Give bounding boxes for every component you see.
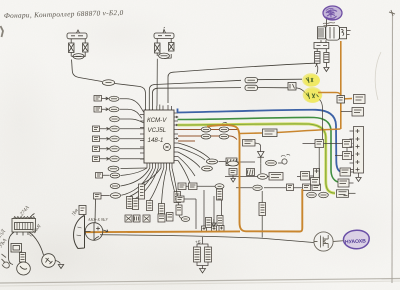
fuse F3 tall [139, 184, 145, 199]
ground arrow right column [356, 173, 361, 182]
bulb H2 filament [85, 223, 100, 241]
wire from yellow-green terminal [349, 192, 356, 194]
box K2 hatched [226, 158, 237, 166]
wire orange2 through box [240, 129, 341, 134]
svg-text:VCJ5L: VCJ5L [148, 127, 167, 134]
box row bottom b1 [125, 215, 132, 222]
svg-text:НУАОХВ: НУАОХВ [345, 238, 367, 245]
node circle N1 [282, 159, 287, 164]
label oval S7 [110, 173, 120, 178]
relay leg fuse left [315, 52, 321, 64]
wire RC2-RC3 [346, 148, 348, 152]
wire W1 long horizontal to relay [168, 63, 316, 103]
wire W2a ECU to junction circle 1 [149, 79, 302, 109]
label oval S8 [111, 193, 121, 198]
wire EDV right down [255, 143, 261, 152]
left cluster rows [93, 80, 148, 172]
oval label YUS [266, 160, 277, 165]
ECU top pin stubs [146, 105, 172, 111]
label oval M1 [206, 159, 217, 164]
oval label PLY [228, 161, 239, 166]
lamp E1 connector label [73, 54, 84, 59]
lamp E2 connector label [159, 53, 170, 58]
plus box P3 [219, 226, 224, 232]
box 241.2 [269, 173, 283, 181]
wire orange relay drop [340, 41, 342, 129]
faint pencil arc right margin [375, 52, 381, 100]
label oval T3 [201, 134, 211, 139]
headlight reflector [74, 216, 85, 249]
wire F2 up [136, 168, 159, 199]
lamp E1 bulb right [83, 43, 89, 52]
wire fusebox left down [9, 232, 15, 265]
plus box P2 [212, 226, 217, 232]
wire tag to reflector [84, 215, 85, 217]
box row bottom b4 [158, 214, 165, 222]
box row bottom b5 [167, 213, 174, 222]
svg-text:КСМ-V: КСМ-V [147, 117, 167, 124]
box EDV [243, 140, 256, 147]
ECU bottom pin stubs [147, 163, 172, 168]
ground arrow under relay [324, 63, 329, 72]
wire RB2 to orange drop [341, 111, 352, 113]
fuse FB1 [259, 203, 266, 216]
ECU left pin stubs [140, 115, 144, 160]
right column components [303, 95, 366, 198]
wire row10 [121, 168, 150, 186]
box RB2 [352, 108, 364, 117]
wire H2 down to bus [94, 237, 99, 241]
relay box CT.1 [314, 43, 329, 49]
wire RV1 up [162, 168, 167, 204]
oval label on y187 [253, 185, 263, 190]
svg-text:АЮг-Б 9ЬУ: АЮг-Б 9ЬУ [87, 217, 109, 222]
wire green from ECU to right column [178, 117, 339, 182]
resistor vertical RV1 [159, 204, 165, 217]
bottom-left corner scribble [2, 254, 10, 268]
lamp E1 bulb left [69, 43, 75, 53]
wire K2 to D1 [237, 161, 255, 163]
relay K1 left section [318, 27, 326, 39]
box RC1 [315, 140, 324, 148]
wire D2 down [260, 163, 262, 173]
box row bottom b3 [143, 215, 150, 222]
wire lamp E1 down to ECU via label [72, 60, 146, 110]
relay K1 right section [340, 28, 347, 39]
label oval row8 [108, 166, 119, 171]
label oval row10 [110, 184, 120, 189]
wire vertical x262 down [261, 191, 263, 203]
resistor RV2 hatched [217, 189, 223, 200]
wire S4 row [100, 137, 145, 140]
label oval S4 [110, 136, 120, 142]
wire row8 to ECU bottom [121, 167, 148, 170]
wire orange junction short [318, 93, 341, 97]
label box on W2a [245, 78, 258, 83]
wire M1 to K2 [219, 161, 226, 163]
wire fusebox top annotation line [30, 214, 35, 219]
sensor S6 box [93, 156, 100, 162]
wire orange bottom from headlight [86, 230, 241, 233]
sensor S8 box [94, 193, 102, 199]
wire F3 up [142, 168, 162, 184]
wire row3 to ECU [120, 119, 144, 123]
label oval T4 [219, 134, 229, 139]
wire fusebox right to horn [29, 232, 44, 255]
wire YUS to node [278, 162, 282, 164]
label oval r2 [181, 217, 189, 222]
label oval T1 [201, 127, 211, 132]
left edge smudge top [1, 26, 4, 37]
ground arrow horn [58, 265, 63, 269]
sensor label oval row0 [102, 80, 114, 86]
wire orange main loop [207, 125, 302, 231]
sensor S4 box [93, 136, 100, 142]
terminal box green wire [338, 179, 349, 187]
wire F4 up [150, 168, 164, 201]
ECU U1 label [147, 117, 167, 144]
wire W2b ECU to junction circle 2 [152, 88, 305, 110]
center-bottom logic chain [100, 169, 321, 274]
wire x214 222 verticals [204, 190, 222, 226]
wire headlight top to cluster [94, 199, 97, 223]
diagonal handwritten annotations [0, 204, 109, 249]
box ML1 [178, 183, 186, 190]
wire shunt top joins [197, 237, 208, 247]
wire orange to box right [341, 98, 352, 101]
label oval row3 [110, 116, 120, 122]
box ML2 [189, 183, 198, 190]
label oval ML3 [215, 184, 224, 189]
label box on W2b [245, 85, 258, 90]
wire lamp E1 internal [71, 39, 85, 57]
box plusB vertical [314, 169, 320, 180]
lamp E2 bulb left [155, 43, 161, 53]
wire shunt bottom joins [197, 262, 208, 269]
wire relay verticals [317, 19, 326, 53]
headlight tag box [79, 206, 86, 215]
ECU U1 [144, 110, 174, 163]
yellow highlighter circle C2 [303, 87, 323, 103]
purple scribble blob [323, 6, 342, 20]
wire S1 row [102, 97, 144, 112]
wire FB1 down to bus [261, 216, 263, 238]
lamp assembly E2 housing [154, 27, 174, 39]
reflector inner ticks [77, 227, 82, 236]
label oval S2 [109, 107, 119, 112]
fuse F2 [133, 199, 139, 210]
wire S5 row [100, 147, 145, 150]
scan mottle patches [0, 217, 125, 290]
connector X2 pin stubs [350, 131, 354, 170]
wire S3 row [100, 127, 145, 130]
box MR1 [229, 169, 237, 176]
right edge top mark [389, 10, 395, 16]
node junction W1-relay [316, 63, 317, 64]
wire yellow-green highlighted [178, 124, 336, 193]
arrow right of bulb [103, 230, 108, 233]
resistor BL2 [20, 253, 26, 263]
rect right r1 [174, 192, 181, 203]
ECU right side brown signal wires [178, 130, 238, 142]
wire S6 row [100, 157, 145, 160]
fuse box teeth [14, 217, 35, 219]
ovals pair bottom right [307, 192, 317, 197]
sensor S7 box [96, 173, 103, 179]
wire lamp E2 internal [157, 39, 171, 59]
wire verticals below ECU right [169, 168, 178, 205]
wire lamp E2 vertical into ECU [156, 59, 159, 106]
wire relay to W1 [315, 63, 317, 66]
wire RC3 to connector [335, 155, 354, 157]
box CHE [311, 178, 320, 186]
wire terminal stubs [344, 172, 354, 196]
sensor S3 box [93, 126, 100, 132]
wire brown2 [178, 136, 237, 140]
relay K1 tail stub [347, 31, 351, 35]
wire row y143 [303, 143, 353, 145]
wire bottom bus black [100, 235, 314, 243]
resistor RZ hatched [247, 169, 255, 176]
sensor S5 box [93, 146, 100, 152]
box y187 a [287, 184, 294, 191]
terminal box yellow-green wire [337, 190, 349, 198]
ground arrow bottom center [200, 269, 206, 274]
wire junction C1 to relay arrow [317, 66, 318, 75]
fuse box FB outer [12, 219, 36, 233]
box B1 on W2b [288, 83, 296, 91]
box y187 c [312, 184, 321, 191]
resistor RM1 hatched [206, 218, 212, 228]
label oval M2 [202, 166, 213, 171]
wire RC1 down [318, 148, 320, 178]
lamp E2 bulb right [169, 43, 175, 52]
scribble under purple blob [323, 23, 335, 26]
label oval S1 [109, 96, 119, 101]
wire CHL to box241 [268, 176, 270, 178]
below-ECU cluster [94, 168, 190, 222]
wire brown1 [178, 129, 238, 131]
box RB1 top right [354, 95, 366, 104]
ground arrow MR1 [231, 175, 236, 182]
connector X2 strip [354, 127, 364, 174]
diode D2 [258, 152, 265, 164]
wire C2 down right column [320, 100, 323, 140]
wire chain y187 [236, 187, 302, 189]
box RC3 [343, 152, 352, 160]
sensor S1 box [94, 96, 102, 102]
bottom paper edge shadow [0, 279, 400, 284]
wire ECU fan right-down [178, 143, 210, 183]
box on orange relay drop [337, 96, 345, 104]
wire fusebox stubs down [17, 232, 28, 236]
lamp assembly E1 housing [67, 30, 87, 39]
wire brown3 [178, 140, 195, 142]
fuse box inner [15, 223, 34, 230]
resistor RM2 hatched [217, 216, 223, 226]
shunt resistor pair right [205, 247, 212, 262]
shunt resistor pair left [194, 247, 201, 262]
wire ML row [186, 185, 215, 187]
wire S8 row [101, 168, 153, 196]
wire S7 row [103, 168, 148, 176]
box row bottom b2 [134, 215, 141, 222]
sensor S2 box [94, 107, 102, 113]
oval label CHL [258, 174, 268, 179]
scribble above T2 [222, 122, 227, 125]
wire F1 up [130, 168, 156, 197]
fuse F1 [127, 197, 133, 209]
wire r2 to label [179, 215, 182, 219]
bottom left battery cluster [9, 199, 109, 275]
terminal box blue wire [340, 168, 351, 176]
label oval S6 [110, 156, 120, 162]
wire blue from ECU to right column [178, 109, 341, 172]
box on orange2 [263, 129, 278, 137]
svg-text:148-1: 148-1 [148, 137, 164, 144]
label oval S5 [110, 146, 120, 152]
box RC2 [343, 140, 352, 148]
motor circle BL3 [17, 262, 31, 275]
label oval T2 [219, 127, 229, 132]
wire horn to ground [55, 261, 60, 264]
ECU right pin stubs with arrows [174, 113, 178, 161]
horn circle H1 [42, 254, 56, 268]
wire ML4 right [184, 199, 196, 229]
bulb circle H2 [85, 223, 103, 241]
rect right r2 [176, 205, 182, 215]
label oval S3 [110, 126, 120, 132]
relay K1 coil body [326, 26, 340, 41]
box BL1 [11, 244, 22, 253]
relay leg fuse right [324, 53, 329, 63]
right paper edge shadow [391, 12, 394, 283]
MOSFET output circle Q1 [314, 232, 334, 251]
node N1 annotation [281, 154, 290, 156]
box ML4 [176, 196, 184, 202]
box eq [301, 172, 310, 181]
purple label oval HYAOXB [334, 230, 370, 249]
box y187 b [303, 184, 311, 191]
wire chain y176 [225, 175, 314, 178]
fuse F4 [147, 201, 153, 211]
plus box P1 [202, 226, 207, 232]
wire S2 row [102, 108, 142, 119]
ECU pin circle [163, 143, 170, 150]
ground arrow mid [212, 219, 217, 227]
yellow highlighter circle C1 [302, 73, 320, 87]
